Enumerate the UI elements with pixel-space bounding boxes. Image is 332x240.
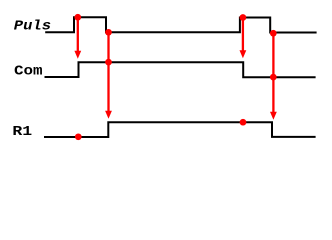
arrow C from Puls rising edge 2 to Com falling edge <box>240 18 247 59</box>
wire Com waveform <box>45 62 316 77</box>
node dot on R1 high line below arrow C <box>240 119 247 126</box>
wire Puls waveform <box>45 17 316 32</box>
arrow B from Puls falling edge 1 through Com to R1 rising edge <box>105 32 112 119</box>
arrow D from Puls falling edge 2 through Com to R1 falling edge <box>270 33 277 120</box>
svg-text:Com: Com <box>14 64 43 80</box>
node dot on Com low line at arrow D <box>270 74 277 81</box>
arrow A from Puls rising edge 1 to Com rising edge <box>74 17 81 59</box>
node dot on Com high line at arrow B <box>105 59 112 66</box>
node dot on Puls rising edge 2 <box>240 14 247 21</box>
node dot on Puls falling edge 1 <box>105 29 112 36</box>
wire R1 waveform <box>44 122 316 137</box>
node dot on Puls rising edge 1 <box>74 14 81 21</box>
svg-text:R1: R1 <box>12 124 32 140</box>
node dot on R1 low line below arrow A <box>75 133 82 140</box>
node dot on Puls falling edge 2 <box>270 30 277 37</box>
